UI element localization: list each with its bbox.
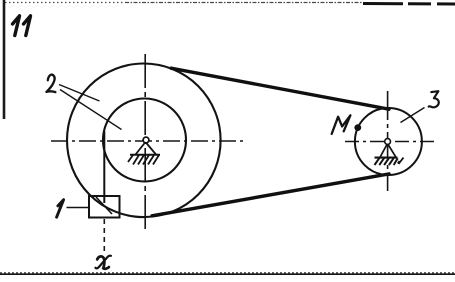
big pulley horizontal centerline [51, 140, 243, 142]
pivot support O2 (small pulley) [375, 144, 404, 166]
small pulley horizontal centerline [345, 141, 438, 143]
small pulley vertical centerline [387, 91, 389, 191]
diagonal mark inside block [96, 197, 112, 214]
big pulley vertical centerline [144, 54, 146, 229]
point M dot [354, 124, 361, 131]
leader line label 1 [67, 207, 91, 209]
dashed coordinate line x [103, 219, 105, 251]
block 1 (square) [89, 196, 120, 218]
bottom border line [0, 273, 455, 274]
left border line [3, 0, 6, 119]
cord from inner pulley to block 1 [103, 131, 105, 203]
pulley 3 circle [355, 108, 422, 175]
belt lower run [152, 174, 389, 216]
label x [97, 256, 109, 268]
pin O2 [385, 139, 391, 145]
top border line [5, 3, 455, 5]
label 2 [46, 75, 55, 93]
pulley 2 outer circle [67, 64, 221, 218]
label 1 [57, 200, 64, 218]
leader line label 3 [401, 108, 425, 123]
pulley 2 inner circle [103, 99, 186, 182]
belt upper run [171, 68, 389, 109]
label M [332, 115, 351, 134]
label 3 [429, 91, 439, 107]
leader lines label 2 [59, 85, 100, 102]
pivot support O1 (big pulley) [128, 142, 160, 165]
pin O1 [143, 137, 149, 143]
